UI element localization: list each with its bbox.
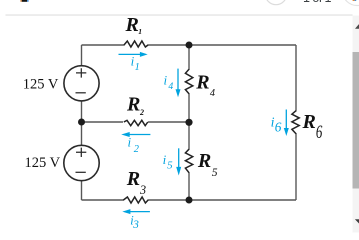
svg-text:1: 1	[135, 62, 140, 73]
svg-text:3: 3	[139, 183, 146, 197]
svg-text:4: 4	[210, 88, 215, 99]
svg-text:R: R	[126, 168, 140, 190]
svg-text:125 V: 125 V	[25, 155, 61, 171]
svg-text:2: 2	[134, 144, 139, 155]
svg-text:R: R	[195, 72, 209, 94]
svg-text:6: 6	[316, 122, 323, 143]
svg-text:i: i	[163, 152, 167, 167]
svg-text:5: 5	[212, 166, 218, 179]
svg-text:R: R	[302, 111, 316, 133]
svg-text:3: 3	[132, 219, 139, 231]
svg-text:R: R	[126, 93, 140, 115]
svg-text:R: R	[197, 150, 211, 172]
svg-text:5: 5	[167, 160, 173, 172]
svg-text:2: 2	[139, 108, 144, 117]
svg-text:1 of 1: 1 of 1	[303, 0, 332, 5]
svg-text:125 V: 125 V	[23, 77, 59, 93]
svg-text:6: 6	[275, 120, 282, 135]
svg-text:R: R	[125, 14, 139, 36]
svg-text:1: 1	[138, 27, 142, 36]
svg-text:i: i	[164, 73, 168, 88]
svg-text:4: 4	[168, 81, 173, 92]
svg-text:i: i	[128, 135, 132, 150]
